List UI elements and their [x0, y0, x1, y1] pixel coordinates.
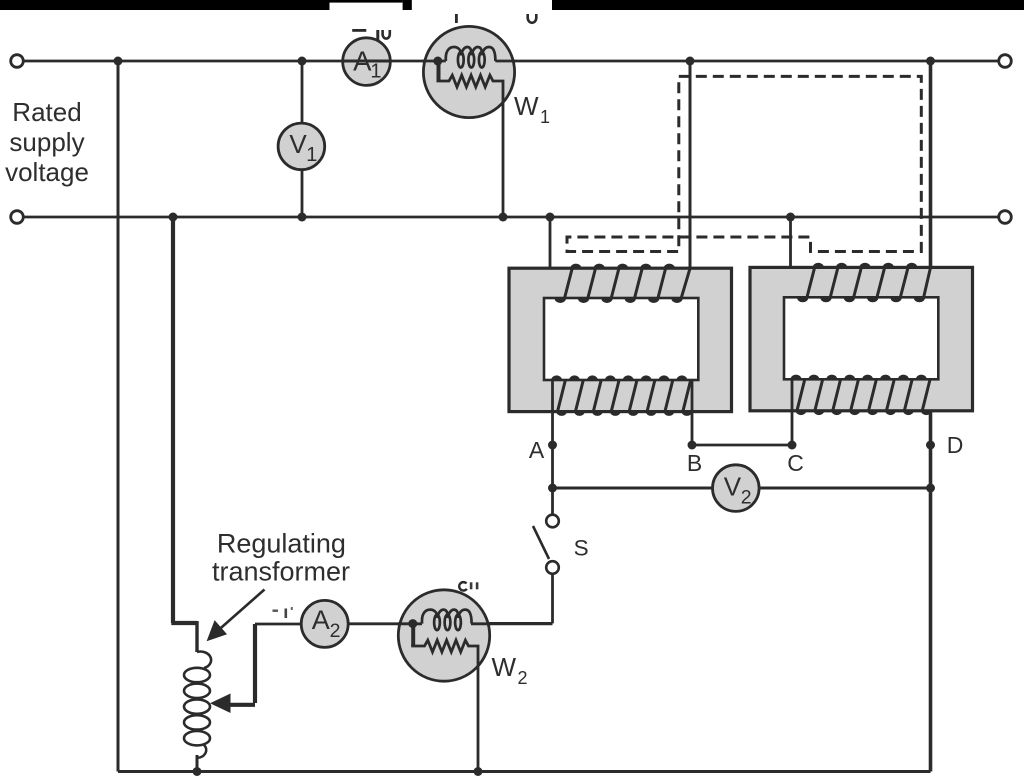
cropped text remnant above A1	[352, 29, 390, 40]
terminal bottom-left of supply	[11, 211, 24, 224]
cropped text remnant above W2	[459, 582, 478, 590]
cropped text remnant near A2	[273, 607, 293, 618]
node V1 bottom	[298, 213, 307, 222]
node top-left junction	[114, 57, 123, 66]
svg-text:1: 1	[370, 61, 381, 83]
wattmeter W1	[423, 26, 514, 117]
svg-text:1: 1	[306, 144, 317, 166]
T2 primary winding (top)	[807, 268, 931, 298]
node W2 tap	[408, 619, 417, 628]
ammeter A1	[343, 38, 391, 86]
svg-text:W: W	[514, 91, 539, 121]
node B	[688, 441, 697, 450]
cropped caption bar left	[0, 0, 330, 10]
svg-text:C: C	[787, 450, 804, 476]
wire through W2	[398, 622, 491, 625]
node left entry	[546, 213, 555, 222]
wire V1 branch	[301, 61, 304, 217]
cropped text remnant U above W1	[528, 14, 537, 23]
node C	[788, 441, 797, 450]
svg-text:voltage: voltage	[5, 157, 89, 187]
wire bottom return	[118, 770, 931, 773]
wire switch upper lead	[551, 488, 554, 515]
node lower supply left junction	[169, 213, 178, 222]
svg-text:2: 2	[741, 487, 752, 509]
wire switch lower lead	[470, 574, 553, 623]
svg-text:B: B	[687, 450, 702, 476]
wire node A lead	[551, 380, 554, 488]
svg-text:A: A	[529, 437, 545, 463]
wire through ammeter A1	[343, 60, 391, 63]
node D	[926, 441, 935, 450]
wattmeter W2	[398, 590, 489, 681]
node right entry	[786, 213, 795, 222]
W1 voltage coil (resistor)	[437, 61, 441, 81]
wire right transformer HV right feeder upper part	[929, 61, 933, 267]
wire V2 row	[553, 487, 931, 490]
node V1 top	[298, 57, 307, 66]
terminal top-left	[11, 55, 24, 68]
wire thick vertical to regulating transformer	[171, 217, 197, 623]
wire node B lead	[691, 380, 694, 445]
W2 voltage coil (resistor)	[411, 624, 415, 647]
wire node C lead	[791, 379, 794, 445]
svg-text:V: V	[289, 129, 307, 159]
svg-text:supply: supply	[9, 127, 84, 157]
wire lower supply line	[24, 216, 999, 219]
wire left vertical from top line to bottom line	[117, 61, 120, 772]
cropped caption bar right	[552, 0, 1024, 10]
wire regulating transformer bottom lead	[196, 755, 199, 772]
svg-text:S: S	[574, 536, 589, 561]
node coil bottom	[193, 767, 202, 776]
cropped caption bar thin top line	[330, 0, 403, 3]
wire right vertical lower part D branch	[929, 379, 933, 771]
wire left transformer left entry	[549, 217, 552, 269]
wire B to C	[692, 444, 792, 447]
T1 primary winding (top)	[565, 268, 691, 298]
node W1 lead on lower supply wire	[499, 213, 508, 222]
wire tap branch	[226, 624, 255, 705]
regulating transformer winding	[184, 652, 211, 758]
cropped caption bar small block	[403, 0, 412, 10]
svg-text:W: W	[492, 652, 517, 682]
voltmeter V2	[713, 465, 760, 512]
terminal top-right	[999, 55, 1012, 68]
ammeter A2	[301, 600, 348, 647]
wire left transformer HV right feeder	[689, 61, 692, 269]
svg-text:transformer: transformer	[212, 557, 350, 587]
tap arrow	[210, 694, 231, 714]
T2 secondary winding (bottom)	[797, 379, 930, 410]
terminal lower supply right	[999, 211, 1012, 224]
svg-text:Regulating: Regulating	[217, 529, 346, 559]
node V2 right	[926, 484, 935, 493]
node W2 lead bottom	[474, 767, 483, 776]
switch S blade	[533, 526, 549, 559]
svg-text:V: V	[724, 472, 742, 502]
node V2 left	[548, 484, 557, 493]
svg-text:D: D	[947, 432, 964, 458]
svg-text:2: 2	[518, 668, 528, 688]
switch S bottom contact	[546, 561, 559, 574]
W1 current coil	[446, 47, 496, 68]
svg-text:2: 2	[330, 620, 341, 642]
transformer T1 core	[509, 268, 732, 411]
cropped text remnant I above W1	[455, 14, 458, 23]
wire A2 to W2 row	[255, 622, 553, 625]
node W1 tap on top wire	[433, 57, 442, 66]
wire right transformer left entry	[789, 217, 792, 268]
svg-text:1: 1	[540, 107, 550, 127]
voltmeter V1	[278, 123, 325, 170]
T1 secondary winding (bottom)	[558, 380, 691, 411]
node A	[548, 441, 557, 450]
svg-text:Rated: Rated	[12, 97, 81, 127]
svg-text:A: A	[312, 605, 330, 635]
W2 current coil	[422, 610, 472, 631]
wire top supply line	[24, 60, 999, 63]
annotation arrow to coil	[214, 590, 265, 635]
switch S top contact	[546, 515, 559, 528]
wire through W1	[423, 60, 516, 63]
wire regulating transformer top lead	[195, 621, 198, 652]
node feeder2 top	[926, 57, 935, 66]
dashed secondary connection loop	[567, 76, 921, 251]
transformer T2 core	[750, 267, 973, 410]
node feeder1 top	[686, 57, 695, 66]
